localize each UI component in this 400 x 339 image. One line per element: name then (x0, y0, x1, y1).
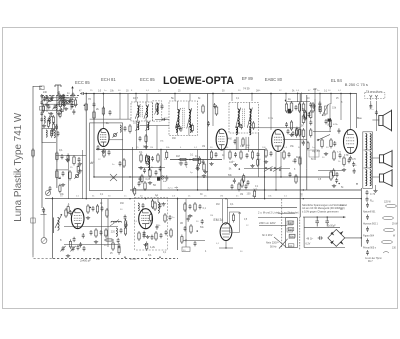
arrow through ferrite coil (55, 214, 62, 228)
resistor R28 (312, 102, 314, 113)
wire (42, 100, 68, 102)
coil antenna L1 (56, 105, 57, 112)
capacitor C26 (319, 106, 322, 111)
electrolytic blob (288, 109, 291, 114)
capacitor C15 (143, 168, 146, 173)
svg-text:0,1: 0,1 (195, 154, 199, 158)
wire antenna stem 2 (72, 93, 74, 95)
cluster bandfilter (161, 202, 165, 206)
resistor R13 (146, 155, 148, 166)
svg-text:6,3V: 6,3V (306, 244, 311, 246)
resistor R19 (203, 162, 205, 172)
arrow on bus (159, 256, 161, 258)
node junction (297, 93, 298, 94)
wire (42, 110, 60, 112)
svg-text:0,1: 0,1 (148, 253, 152, 257)
wire left rail x42 (41, 96, 43, 208)
capacitor (58, 101, 61, 106)
wire drop x128 (127, 94, 129, 120)
resistor (240, 150, 242, 160)
ground (264, 160, 268, 164)
resistor R18 (191, 158, 201, 160)
wire rail x101 (101, 199, 103, 259)
electrolytic blob 3 (157, 177, 160, 181)
capacitor C43 (90, 230, 93, 235)
svg-text:EABC 80: EABC 80 (265, 77, 283, 82)
wire dashed antenna bus (42, 95, 80, 97)
capacitor C41 (92, 206, 95, 211)
capacitor C1 (46, 95, 49, 100)
resistor R45 (95, 228, 97, 238)
coil lower B3 right (250, 127, 251, 135)
coil below B1 right (148, 122, 149, 130)
switch S2 (273, 167, 282, 172)
wire top HT bus (86, 93, 357, 95)
resistor R57 EM34 (232, 213, 234, 223)
capacitor table (366, 227, 369, 232)
tube EL84 T4 (344, 130, 358, 154)
svg-text:ECC 85: ECC 85 (75, 80, 90, 85)
ground (202, 174, 206, 178)
wire (375, 185, 377, 189)
speaker LS3 (379, 169, 392, 187)
coil B1 extra (157, 104, 158, 115)
wire (364, 167, 373, 169)
capacitor C22 (288, 152, 291, 157)
capacitor C51 (160, 233, 163, 238)
wire (219, 247, 233, 249)
capacitor C42 (101, 206, 104, 211)
resistor R30 (330, 138, 332, 149)
capacitor C33 (375, 110, 378, 115)
wire (160, 150, 162, 177)
capacitor (292, 131, 295, 136)
coil (370, 152, 371, 168)
resistor R56 (190, 224, 192, 234)
wire (41, 214, 47, 216)
tube EF89 T3 (272, 130, 285, 152)
connector box (182, 247, 190, 252)
resistor R41 (65, 208, 67, 218)
wire (42, 142, 56, 144)
wire rail x300 (299, 94, 301, 218)
wire (364, 149, 373, 151)
box tap 220 (288, 221, 294, 224)
wire diagonal to selector (274, 237, 286, 247)
coil tall (158, 202, 159, 213)
capacitor (247, 180, 250, 185)
wire T2 feed (212, 94, 214, 127)
capacitor to bridge (318, 236, 323, 239)
resistor R51 (155, 231, 157, 241)
resistor R12 (140, 153, 142, 163)
wire rail x208 (207, 94, 209, 190)
capacitor (246, 153, 249, 158)
box 220V tap (287, 228, 293, 232)
ground (49, 112, 53, 116)
wire drop (297, 93, 299, 103)
resistor (251, 150, 253, 160)
svg-text:1M: 1M (202, 146, 205, 148)
ground (64, 107, 68, 111)
ground (209, 162, 213, 166)
box on left rail (31, 218, 35, 223)
node junction (270, 93, 271, 94)
ground (233, 163, 237, 167)
coil lower B2 right (190, 125, 191, 133)
wire EM34 cathode (225, 241, 227, 249)
antenna arrow (71, 86, 73, 88)
capacitor C2 (51, 95, 54, 100)
potentiometer P2 (45, 190, 50, 195)
coil horizontal AM (111, 221, 121, 222)
node (275, 189, 276, 190)
svg-text:EF 89: EF 89 (242, 76, 254, 81)
capacitor C29 (339, 153, 342, 158)
trimmer antenna (57, 95, 62, 101)
table oval 2 (383, 216, 394, 219)
capacitor C37 (49, 186, 52, 191)
trimmer in FM box (112, 132, 117, 137)
capacitor C10 (124, 126, 127, 131)
ground (65, 158, 69, 162)
node junction (160, 176, 161, 177)
wire T2 cathode (223, 148, 225, 160)
capacitor C39 (119, 161, 122, 166)
svg-text:Figaro 904: Figaro 904 (363, 235, 375, 238)
svg-text:170: 170 (344, 153, 349, 157)
resistor right col (310, 110, 312, 120)
wire EL84 anode (350, 94, 352, 130)
wire y119 (90, 118, 131, 120)
EM34 screen lines (222, 223, 231, 237)
resistor R1 (42, 104, 44, 113)
svg-text:0,1: 0,1 (139, 150, 143, 154)
wire PSU top rail (303, 216, 346, 218)
varcap (52, 104, 57, 110)
table bracket (383, 252, 389, 254)
wire left loop rail x33 (32, 86, 34, 255)
node junction (285, 93, 286, 94)
cluster antenna matrix (59, 99, 61, 109)
capacitor (71, 103, 74, 108)
capacitor 50uF 2 (325, 217, 329, 226)
wire to LS2 (372, 157, 380, 159)
svg-text:2x450: 2x450 (130, 259, 137, 261)
resistor R32 (333, 150, 335, 161)
resistor R36 (73, 155, 75, 166)
capacitor C28 (333, 141, 336, 146)
switch S1 (264, 167, 273, 172)
wire (157, 199, 159, 202)
capacitor left col (40, 112, 43, 116)
node (103, 93, 105, 95)
capacitor C20 (215, 152, 218, 157)
resistor R15 (149, 168, 151, 178)
cluster AM section (82, 233, 85, 238)
node junction (93, 176, 94, 177)
wire drop x120 (119, 94, 121, 120)
resistor (295, 128, 297, 138)
capacitor (234, 152, 237, 157)
node junction (264, 198, 265, 199)
node (160, 149, 161, 150)
node junction (145, 198, 146, 199)
resistor ladder 2 (302, 114, 305, 125)
wire note underline (258, 217, 297, 219)
tube EM34 T7 (220, 223, 232, 241)
node junction (251, 93, 252, 94)
node junction (225, 198, 226, 199)
wire rail x265 (264, 150, 266, 199)
trimmer (74, 173, 79, 178)
resistor R27 (290, 120, 292, 131)
trimmer on x161 (161, 176, 165, 180)
svg-text:2x450 pF: 2x450 pF (80, 259, 91, 263)
coil secondary (370, 134, 371, 150)
wire rail y140 (283, 139, 307, 141)
wire (42, 103, 78, 105)
wire B1 bottom drop 2 (146, 121, 148, 150)
wire drop x232 (231, 94, 233, 102)
wire PSU left edge (303, 217, 305, 247)
resistor R33 (330, 170, 332, 181)
wire rail y128 (250, 127, 300, 129)
ground (45, 103, 49, 107)
capacitor (257, 152, 260, 157)
wire (285, 101, 310, 103)
speaker LS2 (379, 150, 392, 168)
ferrite antenna coil (58, 218, 60, 231)
wire (197, 150, 199, 191)
capacitor C30 (336, 172, 339, 177)
wire drop x246 (245, 137, 247, 150)
wire y125 (140, 125, 169, 127)
svg-text:1M: 1M (240, 194, 243, 196)
wire (42, 128, 58, 130)
wire x83 (82, 150, 84, 199)
wire (64, 244, 118, 246)
tuning cap 1 (60, 246, 65, 252)
resistor (295, 174, 297, 184)
wire (42, 97, 78, 99)
coil osc L4 (120, 125, 121, 132)
coil L3 (46, 130, 47, 137)
wire EM34 feed2 (227, 199, 229, 223)
capacitor table C76 (366, 190, 369, 195)
resistor R21 (265, 148, 267, 158)
wire (64, 226, 118, 228)
node (280, 176, 281, 177)
resistor R37 (56, 169, 58, 180)
ground (42, 124, 46, 128)
wire B3 right drop (257, 133, 259, 177)
coil (49, 116, 50, 124)
resistor R9 (156, 102, 158, 112)
wire (318, 170, 343, 172)
resistor R44 (106, 208, 108, 218)
coil below B1 (148, 156, 149, 170)
svg-text:R₆₀: R₆₀ (370, 200, 374, 203)
coil (138, 203, 139, 211)
node junction (119, 93, 120, 94)
tube ECH81 T2 (216, 129, 227, 150)
table oval 4 (382, 240, 393, 243)
wire B1 bottom drop 1 (136, 121, 138, 150)
capacitor (43, 96, 46, 101)
capacitor C5 (51, 130, 54, 135)
box tap 150 (290, 234, 296, 237)
svg-text:Blau: Blau (357, 117, 362, 120)
capacitor C17 (138, 181, 141, 186)
wire tube to box edge (109, 139, 123, 141)
resistor R10 (202, 104, 204, 114)
capacitor table (366, 203, 369, 208)
resistor (299, 156, 301, 166)
wire above transformer (278, 212, 295, 214)
node junction (177, 189, 178, 190)
resistor R14 (157, 153, 159, 163)
ground T1 cathode (101, 150, 105, 154)
capacitor C8 (109, 110, 112, 115)
capacitor C3 (60, 108, 63, 113)
capacitor C12 (161, 104, 164, 109)
coil lower B2 left (176, 125, 177, 133)
svg-text:8uF: 8uF (163, 181, 167, 183)
box 240V tap (287, 221, 293, 225)
capacitor (57, 131, 60, 136)
resistor R40 (123, 158, 125, 168)
capacitor table (366, 215, 369, 220)
resistor (229, 150, 231, 160)
svg-text:0,1: 0,1 (230, 203, 234, 206)
capacitor (289, 172, 292, 177)
svg-text:B 250 C 75 s: B 250 C 75 s (345, 82, 368, 87)
svg-text:LOEWE-OPTA: LOEWE-OPTA (163, 75, 234, 87)
arrow PSU rail (343, 216, 346, 218)
svg-text:0,1: 0,1 (59, 148, 63, 152)
node junction (330, 93, 331, 94)
node (317, 216, 318, 217)
ground mid (203, 170, 207, 174)
cluster below B3 (233, 178, 236, 183)
wire to LS3 (372, 176, 380, 178)
capacitor C6 (69, 98, 72, 103)
node junction (86, 198, 87, 199)
wire left rail top (33, 86, 42, 88)
capacitor below B3 (234, 139, 237, 144)
capacitor C47 (118, 243, 121, 248)
node junction (52, 198, 53, 199)
svg-text:Primat 905 s: Primat 905 s (363, 247, 377, 250)
resistor R39 (103, 148, 105, 158)
node (85, 93, 87, 95)
bandfilter dashed box (135, 198, 168, 251)
resistor R52 (164, 213, 166, 223)
capacitor C52 (169, 215, 172, 220)
arrow coil (155, 103, 160, 115)
capacitor C45 (120, 228, 123, 233)
capacitor C48 (142, 203, 145, 208)
resistor below B3 (242, 137, 244, 147)
wire TA drop 1 (370, 101, 372, 108)
wire (183, 240, 205, 242)
FM tuner box (90, 123, 123, 191)
ground (66, 254, 70, 258)
svg-text:ECC 85: ECC 85 (140, 77, 155, 82)
capacitor C11 (139, 136, 142, 141)
wire B3 drop (248, 137, 250, 152)
wire volume line (329, 103, 331, 132)
svg-text:EL 84: EL 84 (331, 78, 342, 83)
capacitor 50uF 1 (315, 217, 319, 226)
arrow label (175, 187, 178, 189)
wire bus corner down (356, 94, 358, 129)
capacitor left col (40, 118, 43, 122)
ground (332, 184, 336, 188)
speaker LS1 (379, 110, 392, 132)
wire rail x361 (360, 188, 362, 247)
svg-text:EM 34: EM 34 (214, 218, 224, 222)
ground (57, 112, 61, 116)
potentiometer volume (322, 104, 329, 116)
svg-text:für 2 2KV: für 2 2KV (262, 234, 273, 237)
capacitor C35 (78, 157, 81, 162)
resistor R4 (85, 102, 87, 112)
antenna input 1 (55, 85, 61, 91)
wire (70, 96, 72, 111)
wire B3 drop (235, 137, 237, 150)
capacitor C16 (155, 170, 158, 175)
svg-text:5%: 5% (143, 147, 146, 149)
wire dashed PSU feed (281, 199, 283, 249)
svg-text:G-von der Hymn: G-von der Hymn (365, 257, 383, 260)
wire left rail to bottom bus (33, 255, 53, 259)
wire EM34 feed1 (222, 199, 224, 223)
wire dashed bottom bus (53, 258, 178, 260)
resistor R25 (298, 102, 300, 113)
node (270, 93, 272, 95)
capacitor C32 (369, 104, 372, 109)
wire bridge out (345, 237, 362, 239)
wire rail x315 (314, 99, 316, 160)
capacitor table (366, 239, 369, 244)
tube EF89 T6 (139, 209, 153, 229)
capacitor table (366, 250, 369, 255)
capacitor antenna AM (42, 207, 45, 213)
node junction (197, 176, 198, 177)
capacitor on antenna line 2 (71, 93, 74, 97)
svg-text:48 Ω~: 48 Ω~ (306, 237, 313, 240)
svg-text:blau: blau (340, 205, 345, 207)
wire drop x341 (340, 94, 342, 121)
svg-text:Luna Plastik Type 741 W: Luna Plastik Type 741 W (13, 112, 24, 222)
capacitor antenna coupling (80, 92, 85, 95)
svg-text:Naturell 901: Naturell 901 (363, 211, 376, 214)
wire drop x190 (189, 94, 191, 102)
svg-text:0,25: 0,25 (148, 222, 153, 225)
svg-text:1M: 1M (216, 203, 219, 206)
box Ug (309, 150, 319, 157)
resistor R26 (304, 110, 306, 121)
capacitor C18 (185, 161, 188, 166)
switch contact (317, 139, 319, 141)
svg-text:1M: 1M (220, 196, 223, 198)
wire antenna stem 1 (58, 91, 60, 94)
capacitor right col (309, 102, 312, 107)
wire switch row (244, 167, 290, 169)
wire drop x238 (237, 137, 239, 150)
